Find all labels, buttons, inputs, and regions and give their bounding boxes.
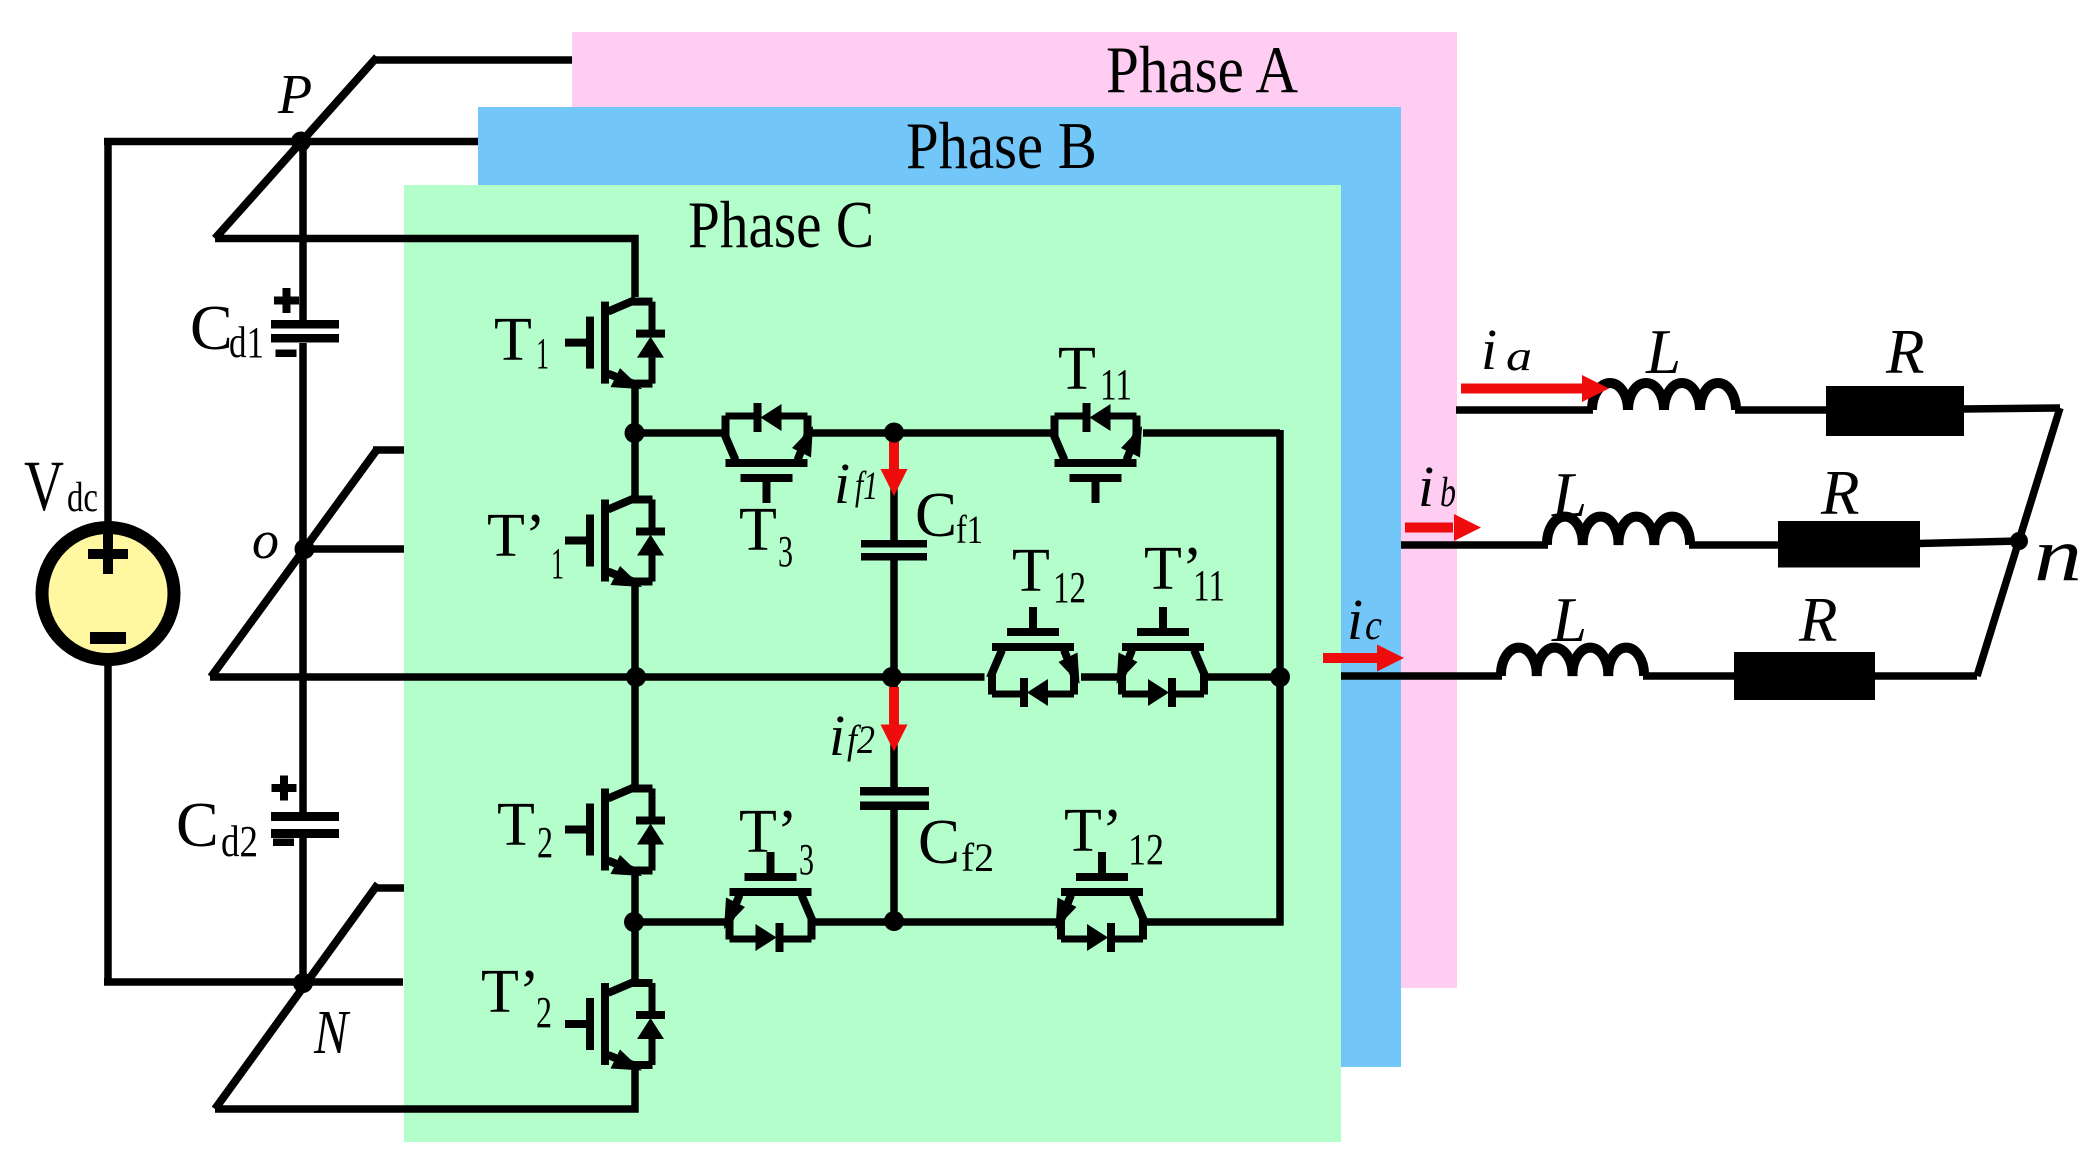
wire T11 to right bus corner [1143,429,1280,437]
node Cf1-Cf2 junction [882,667,902,687]
current arrow if2 [881,687,908,752]
transistor T'2 [565,979,665,1071]
svg-text:T’: T’ [739,798,798,866]
phase A pane [572,32,1457,988]
wire phase B R to node n [1918,541,2019,544]
wire T'12 to right bus [1146,918,1283,926]
svg-text:i: i [1481,317,1497,382]
svg-text:V: V [24,446,64,526]
wire node A to T3 [634,429,722,437]
resistor R phase C [1734,652,1875,700]
svg-text:11: 11 [1100,360,1132,409]
wire T'2 emitter to bottom N rail [215,1070,635,1110]
svg-text:L: L [1645,317,1681,387]
svg-text:11: 11 [1193,561,1225,610]
resistor R phase A [1826,386,1964,436]
current arrow ic [1323,645,1404,672]
svg-text:12: 12 [1053,563,1086,612]
wire T'1 emitter to mid rail [631,583,639,677]
capacitor Cf1 [861,540,927,561]
wire phase A R to corner [1962,408,2060,409]
svg-text:T: T [1058,335,1096,403]
svg-text:i: i [1347,587,1363,652]
svg-text:3: 3 [799,835,814,884]
node if1 junction [884,423,904,443]
node N [293,973,313,993]
wire phase A mid rail stub [373,446,404,454]
wire top rail P to phase B pane [104,138,478,146]
svg-text:f1: f1 [956,507,983,552]
inductor L phase B [1547,517,1690,545]
wire Cf2 branch lower [890,809,898,921]
wire star diagonal a-n-c [1977,408,2060,676]
svg-text:o: o [252,510,279,570]
wire T12 to T'11 [1081,673,1118,681]
svg-text:C: C [176,789,219,860]
svg-text:dc: dc [67,475,98,521]
wire T2 emitter to T'2 collector [631,875,639,979]
node Cf2-bottom junction [884,911,904,931]
transistor T'1 [565,496,665,588]
svg-text:P: P [277,64,312,126]
inductor L phase A [1592,383,1736,410]
transistor T'3 [724,852,816,952]
svg-text:1: 1 [536,329,549,378]
svg-text:Phase A: Phase A [1106,33,1298,107]
node A junction [625,423,645,443]
svg-text:a: a [1506,334,1532,380]
wire Cf2 branch upper [890,677,898,788]
wire Vdc bottom to N rail corner [104,665,112,982]
transistor T12 [988,607,1080,707]
svg-text:Phase C: Phase C [688,188,874,262]
voltage source Vdc [42,528,174,660]
svg-text:2: 2 [536,988,552,1037]
svg-text:L: L [1551,585,1587,655]
transistor T'12 [1056,852,1148,952]
svg-text:i: i [829,703,845,768]
wire phase C rail to R [1643,672,1736,680]
node n [2010,532,2028,550]
svg-text:c: c [1365,603,1382,649]
wire diagonal bus through P [215,57,377,239]
wire phase C mid rail [210,673,985,681]
wire diagonal bus through N [215,884,378,1109]
wire phase B rail to R [1689,541,1780,549]
wire phase A output rail left [1456,406,1593,414]
wire phase B output rail left [1401,541,1548,549]
wire T'11 to output node [1208,673,1280,681]
wire left vertical from P rail to Vdc top [104,142,112,523]
wire phase B mid rail from o [305,545,405,553]
phase C pane [404,185,1341,1142]
svg-text:C: C [915,480,957,550]
svg-text:T’: T’ [1064,797,1123,865]
wire DC bus P to Cd1 [299,142,307,322]
capacitor Cd2 [271,776,339,847]
svg-text:3: 3 [778,527,793,576]
svg-text:d1: d1 [229,318,264,367]
svg-text:C: C [190,292,233,363]
wire T1 emitter to T'1 collector [631,388,639,497]
transistor T2 [565,785,665,877]
svg-text:n: n [2034,513,2082,597]
wire bottom rail leg to T'3 [634,918,726,926]
svg-text:i: i [1418,454,1434,519]
svg-text:L: L [1551,460,1587,530]
svg-text:12: 12 [1128,825,1164,874]
wire phase C top rail [215,239,635,298]
node mid-leg junction [626,667,646,687]
svg-text:N: N [313,999,351,1067]
transistor T11 [1051,403,1143,503]
wire DC bus Cd2 to N [299,838,307,983]
transistor T'11 [1117,607,1209,707]
svg-text:1: 1 [551,539,564,588]
wire Cf1 branch lower [890,560,898,677]
capacitor Cd1 [271,288,339,357]
transistor T1 [565,298,665,390]
wire mid rail to T2 collector [631,677,639,785]
svg-text:d2: d2 [221,817,258,866]
wire phase A top rail [374,56,572,64]
inductor L phase C [1501,648,1644,676]
wire T3 to T11 [811,429,1051,437]
node o [295,539,315,559]
svg-text:Phase B: Phase B [906,109,1097,183]
wire bottom rail N to green pane [104,978,403,986]
svg-text:f2: f2 [847,717,875,762]
svg-text:T’: T’ [487,502,546,570]
wire phase A bottom rail stub [374,884,404,892]
svg-text:R: R [1798,585,1837,655]
node output junction [1270,667,1290,687]
svg-text:f2: f2 [961,835,994,880]
wire Cf1 branch upper [890,432,898,541]
current arrow ia [1461,375,1609,402]
node bottom-leg junction [624,912,644,932]
svg-text:R: R [1820,458,1859,528]
wire diagonal bus through o [211,450,377,678]
svg-text:R: R [1885,317,1924,387]
resistor R phase B [1778,521,1920,568]
wire T'3 to Cf2 node to T'12 [815,918,1058,926]
svg-text:T’: T’ [481,958,540,1026]
wire right bus vertical [1276,430,1284,926]
svg-text:T: T [497,791,535,859]
wire phase C R to corner [1873,672,1977,680]
current arrow ib [1405,514,1481,541]
svg-text:i: i [834,451,850,516]
capacitor Cf2 [860,787,929,810]
wire DC bus Cd1 to Cd2 [299,343,307,812]
svg-text:2: 2 [537,818,553,867]
svg-text:T: T [494,306,532,374]
current arrow if1 [881,437,908,496]
svg-text:T: T [1012,537,1050,605]
node P [291,132,311,152]
wire phase C output rail left [1341,672,1502,680]
svg-text:b: b [1440,470,1456,516]
svg-text:C: C [918,807,960,877]
transistor T3 [722,403,814,503]
svg-text:f1: f1 [855,463,878,508]
wire phase A rail to R [1735,406,1828,414]
svg-text:T: T [739,496,777,564]
phase B pane [478,107,1401,1067]
